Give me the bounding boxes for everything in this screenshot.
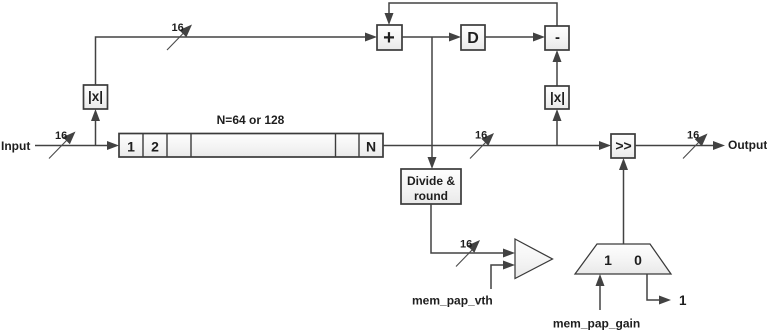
svg-text:16: 16 — [460, 239, 472, 251]
shifter block >> — [611, 134, 635, 158]
bus width 16 (output wire) — [683, 130, 708, 159]
wire mux const 1 — [647, 274, 671, 305]
svg-text:|x|: |x| — [88, 89, 103, 104]
adder + — [377, 25, 402, 50]
shift register box — [119, 134, 383, 158]
svg-text:1: 1 — [127, 139, 135, 155]
svg-text:1: 1 — [604, 252, 612, 268]
svg-text:16: 16 — [172, 22, 184, 34]
mux trapezoid — [575, 244, 671, 274]
wire mux to >> — [619, 158, 628, 244]
svg-text:16: 16 — [475, 130, 487, 142]
subtractor - — [545, 26, 569, 50]
svg-text:mem_pap_gain: mem_pap_gain — [553, 317, 640, 331]
wire D to - — [485, 33, 545, 42]
svg-text:2: 2 — [151, 139, 159, 155]
svg-text:Input: Input — [1, 139, 30, 153]
svg-text:Divide &: Divide & — [407, 174, 455, 188]
svg-text:-: - — [555, 29, 560, 46]
svg-text:+: + — [383, 27, 395, 49]
wire + to D — [402, 33, 461, 42]
wire mem_pap_gain to mux — [596, 274, 605, 310]
bus width 16 (middle wire) — [470, 130, 494, 159]
svg-text:>>: >> — [615, 138, 631, 154]
feedback wire from - to + — [385, 3, 558, 26]
wire |x| to adder — [96, 33, 378, 86]
wire branch main to |x|2 — [553, 109, 562, 146]
svg-text:16: 16 — [687, 130, 699, 142]
svg-text:N: N — [366, 139, 376, 155]
wire >> to output — [635, 141, 725, 150]
wire mem_pap_vth to comparator — [491, 261, 515, 290]
wire branch down to Divide & round — [428, 37, 437, 169]
wire branch up to |x| — [91, 109, 100, 146]
svg-text:Output: Output — [728, 138, 767, 152]
abs block |x| (left) — [84, 85, 108, 109]
wire register to >> — [383, 141, 611, 150]
abs block |x| (right) — [545, 86, 569, 109]
svg-text:mem_pap_vth: mem_pap_vth — [412, 294, 493, 308]
svg-text:1: 1 — [679, 293, 687, 308]
wire input to register — [35, 141, 119, 150]
wire divide to comparator — [431, 204, 515, 258]
svg-text:N=64 or 128: N=64 or 128 — [217, 113, 285, 127]
divide block Divide & round — [401, 169, 461, 204]
bus width 16 (top wire) — [167, 22, 192, 50]
svg-text:0: 0 — [634, 252, 642, 268]
bus width 16 (input wire) — [49, 130, 76, 159]
wire |x|2 to - — [553, 50, 562, 86]
svg-text:|x|: |x| — [550, 90, 565, 105]
svg-text:D: D — [467, 30, 479, 47]
delay block D — [461, 25, 485, 50]
svg-text:round: round — [414, 189, 448, 203]
bus width 16 (divide wire) — [456, 239, 480, 267]
svg-text:16: 16 — [55, 130, 67, 142]
comparator triangle — [515, 239, 553, 279]
